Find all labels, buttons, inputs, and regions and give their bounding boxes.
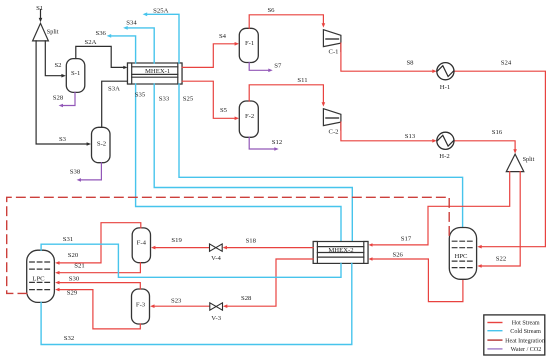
wire S28 MHEX-2 to V-3 xyxy=(226,259,313,306)
wire S3A S-2 to MHEX-1 xyxy=(102,81,128,127)
svg-text:F-3: F-3 xyxy=(136,301,146,308)
svg-text:S6: S6 xyxy=(267,7,275,14)
svg-text:F-2: F-2 xyxy=(245,113,254,120)
svg-text:F-4: F-4 xyxy=(137,240,147,247)
wire S35 cold MHEX-2 to MHEX-1 xyxy=(136,84,341,242)
wire S28 water out of S-1 xyxy=(62,92,76,105)
flash drum F-1 xyxy=(239,28,258,62)
svg-text:S38: S38 xyxy=(70,168,81,175)
svg-text:S21: S21 xyxy=(74,262,84,269)
svg-text:V-3: V-3 xyxy=(211,315,221,322)
svg-text:S19: S19 xyxy=(171,237,182,244)
wire S34 cold out xyxy=(126,28,154,63)
svg-text:C-2: C-2 xyxy=(328,129,338,136)
wire S26 HPC bottom to MHEX-2 xyxy=(371,259,463,302)
svg-text:S35: S35 xyxy=(135,91,146,98)
column HPC xyxy=(449,228,476,280)
wire S2 split to S-1 xyxy=(45,41,63,76)
svg-text:S28: S28 xyxy=(241,295,252,302)
svg-text:S32: S32 xyxy=(64,335,74,342)
svg-text:H-1: H-1 xyxy=(440,84,450,91)
wire S8 C-1 to H-1 xyxy=(341,43,434,71)
svg-text:Cold Stream: Cold Stream xyxy=(510,329,541,335)
wire S17 Split to MHEX-2 xyxy=(371,172,509,245)
svg-text:S-1: S-1 xyxy=(71,70,80,77)
wire S31 LPC top to MHEX-2 xyxy=(41,244,341,277)
svg-text:S31: S31 xyxy=(63,236,73,243)
svg-text:S17: S17 xyxy=(401,235,412,242)
wire S4 MHEX-1 to F-1 xyxy=(182,44,236,68)
svg-text:S3A: S3A xyxy=(108,86,120,93)
svg-text:C-1: C-1 xyxy=(328,48,338,55)
legend box xyxy=(484,315,545,355)
wire S38 water out of S-2 xyxy=(80,163,102,180)
compressor C-2 xyxy=(323,109,341,126)
separator S-1 xyxy=(66,59,85,93)
splitter Split top-left xyxy=(33,23,49,41)
wire S25 cold HPC top to MHEX-1 xyxy=(179,84,463,228)
svg-text:S11: S11 xyxy=(297,77,307,84)
svg-text:S8: S8 xyxy=(406,60,414,67)
heat exchanger MHEX-1 xyxy=(128,63,183,84)
heat exchanger MHEX-2 xyxy=(313,242,368,264)
svg-text:S36: S36 xyxy=(95,30,106,37)
svg-text:F-1: F-1 xyxy=(245,40,254,47)
svg-text:S3: S3 xyxy=(59,136,67,143)
svg-text:S16: S16 xyxy=(492,129,503,136)
wire S36 cold out xyxy=(110,36,136,63)
svg-text:Split: Split xyxy=(523,156,535,163)
svg-text:HPC: HPC xyxy=(454,253,468,260)
svg-text:V-4: V-4 xyxy=(211,255,221,262)
svg-text:LPC: LPC xyxy=(32,276,45,283)
wire S7 water out of F-1 xyxy=(249,63,270,71)
flash drum F-4 xyxy=(132,228,150,263)
svg-text:S22: S22 xyxy=(496,256,506,263)
wire S22 Split to HPC xyxy=(480,172,520,266)
svg-text:S13: S13 xyxy=(405,133,416,140)
svg-text:S30: S30 xyxy=(69,276,80,283)
svg-text:S25A: S25A xyxy=(153,8,168,15)
flash drum F-2 xyxy=(239,101,258,137)
wire S19 V-4 to F-4 xyxy=(154,247,210,249)
svg-text:S34: S34 xyxy=(126,20,137,27)
svg-text:S2A: S2A xyxy=(85,39,97,46)
wire S16 H-2 to Split xyxy=(454,141,515,150)
wire S25A cold out xyxy=(146,14,180,63)
cooler H-1 xyxy=(437,63,454,80)
svg-text:H-2: H-2 xyxy=(439,153,449,160)
wire S21 F-4 bottom to LPC xyxy=(58,263,140,273)
svg-text:S20: S20 xyxy=(68,252,79,259)
wire heat integration dashed LPC to HPC xyxy=(7,197,450,293)
wire S23 V-3 to F-3 xyxy=(153,305,210,307)
svg-text:S1: S1 xyxy=(36,5,43,12)
svg-text:Hot Stream: Hot Stream xyxy=(512,321,540,327)
splitter Split right xyxy=(506,154,524,172)
compressor C-1 xyxy=(323,30,341,47)
svg-text:S26: S26 xyxy=(392,251,403,258)
svg-text:S29: S29 xyxy=(67,289,78,296)
wire S13 C-2 to H-2 xyxy=(341,122,434,141)
wire S6 F-1 to C-1 xyxy=(249,15,323,28)
svg-text:MHEX-1: MHEX-1 xyxy=(145,68,170,75)
svg-text:S-2: S-2 xyxy=(97,141,106,148)
wire S5 MHEX-1 to F-2 xyxy=(182,81,236,118)
separator S-2 xyxy=(92,127,111,162)
svg-text:Water / CO2: Water / CO2 xyxy=(511,347,542,353)
svg-text:S5: S5 xyxy=(220,107,228,114)
svg-text:S25: S25 xyxy=(183,96,194,103)
svg-text:S7: S7 xyxy=(274,63,282,70)
svg-text:Heat Integration: Heat Integration xyxy=(505,338,545,344)
valve V-4 xyxy=(210,244,223,251)
wire S32 LPC bottom to MHEX-2 xyxy=(41,263,352,344)
wire S33 cold MHEX-2 to MHEX-1 xyxy=(154,84,352,242)
svg-text:S2: S2 xyxy=(54,62,61,69)
svg-text:Split: Split xyxy=(47,28,59,35)
wire S2A S-1 to MHEX-1 xyxy=(76,46,125,67)
flash drum F-3 xyxy=(132,289,150,324)
svg-text:S28: S28 xyxy=(53,95,64,102)
svg-text:S18: S18 xyxy=(246,237,257,244)
wire S11 F-2 to C-2 xyxy=(249,85,323,103)
wire S29 F-3 bottom to LPC xyxy=(58,290,140,329)
svg-text:S33: S33 xyxy=(159,95,170,102)
svg-text:S4: S4 xyxy=(219,33,227,40)
wire S24 H-1 to HPC xyxy=(454,71,545,247)
wire S30 F-3 top to LPC xyxy=(58,283,140,289)
wire S1 feed xyxy=(40,10,42,20)
cooler H-2 xyxy=(437,132,454,149)
wire S12 water out of F-2 xyxy=(249,137,276,149)
wire S3 split to S-2 xyxy=(36,41,88,144)
column LPC xyxy=(27,250,55,302)
wire S18 MHEX-2 to V-4 xyxy=(226,247,314,249)
svg-text:S23: S23 xyxy=(171,297,182,304)
svg-text:S24: S24 xyxy=(501,60,512,67)
valve V-3 xyxy=(210,303,223,310)
svg-text:MHEX-2: MHEX-2 xyxy=(328,247,353,254)
wire S20 F-4 top to LPC xyxy=(58,223,141,263)
svg-text:S12: S12 xyxy=(272,139,282,146)
